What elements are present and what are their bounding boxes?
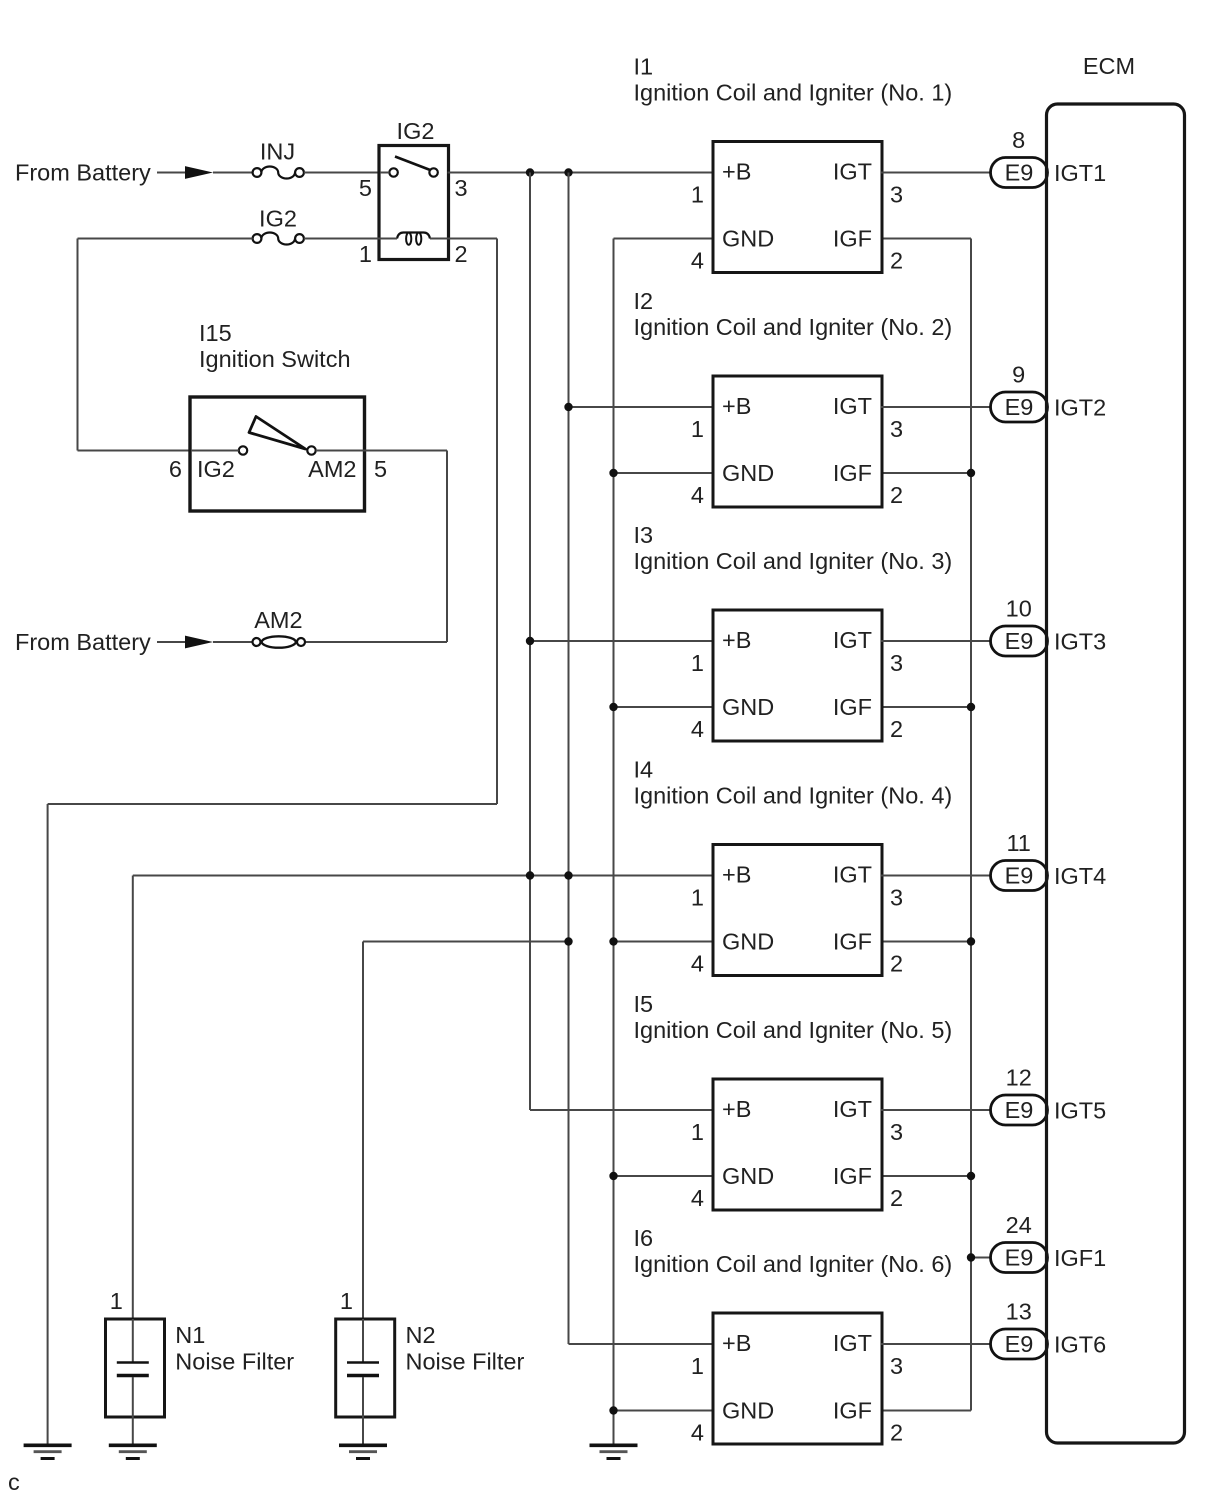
svg-text:Ignition Coil and Igniter (No.: Ignition Coil and Igniter (No. 4) <box>634 783 953 809</box>
junction IGF rail at I2 <box>967 469 975 477</box>
wire relay pin 3 to igniter I1 +B <box>448 172 715 174</box>
svg-text:IGT3: IGT3 <box>1054 629 1106 655</box>
svg-text:1: 1 <box>691 1119 704 1145</box>
junction IGF rail at IGF1 <box>967 1253 975 1261</box>
svg-text:IGT2: IGT2 <box>1054 395 1106 421</box>
svg-text:5: 5 <box>359 175 372 201</box>
svg-text:IGT: IGT <box>833 393 872 419</box>
connector E9 pin 24 oval <box>991 1243 1048 1273</box>
svg-text:3: 3 <box>890 1353 903 1379</box>
wire noise filter N2 to power rail B <box>363 941 569 943</box>
junction rail B at I2 +B <box>564 403 572 411</box>
svg-text:E9: E9 <box>1005 1331 1034 1357</box>
svg-text:2: 2 <box>890 248 903 274</box>
svg-text:1: 1 <box>691 1353 704 1379</box>
svg-text:13: 13 <box>1006 1299 1032 1325</box>
wire power rail B <box>568 173 570 1345</box>
svg-text:IGF: IGF <box>833 1398 872 1424</box>
wire power rail A <box>529 173 531 1111</box>
ground noise filter N1 <box>109 1445 157 1458</box>
arrow battery feed 1 <box>185 166 213 179</box>
wire relay pin 2 to ground <box>448 238 498 240</box>
svg-text:Ignition Coil and Igniter (No.: Ignition Coil and Igniter (No. 6) <box>634 1251 953 1277</box>
svg-text:INJ: INJ <box>260 139 295 165</box>
svg-text:6: 6 <box>169 456 182 482</box>
svg-text:GND: GND <box>722 929 774 955</box>
svg-text:I2: I2 <box>634 288 654 314</box>
svg-text:IG2: IG2 <box>259 206 297 232</box>
igniter I2 box U2 <box>713 376 882 507</box>
noise filter N2 capacitor <box>347 1319 379 1417</box>
fusible link AM2 <box>253 636 306 647</box>
svg-text:IGT: IGT <box>833 862 872 888</box>
svg-text:12: 12 <box>1006 1065 1032 1091</box>
svg-text:1: 1 <box>691 650 704 676</box>
wire ground rail to igniter I6 GND <box>614 1410 715 1412</box>
svg-text:IGT4: IGT4 <box>1054 863 1106 889</box>
wire igniter I6 IGF to rail <box>881 1410 971 1412</box>
wire noise filter N2 to ground <box>362 1417 364 1445</box>
junction ground rail at I3 GND <box>609 703 617 711</box>
wire igniter I6 IGT to ECM <box>881 1343 993 1345</box>
svg-text:9: 9 <box>1012 362 1025 388</box>
connector E9 pin 11 oval <box>991 861 1048 891</box>
connector E9 pin 13 oval <box>991 1329 1048 1359</box>
svg-text:IGT: IGT <box>833 627 872 653</box>
wire igniter I2 IGT to ECM <box>881 406 993 408</box>
wire rail B to igniter I6 +B <box>569 1343 715 1345</box>
wire relay internal coil leads <box>380 238 397 240</box>
svg-text:Noise Filter: Noise Filter <box>406 1349 525 1375</box>
svg-text:IGT5: IGT5 <box>1054 1098 1106 1124</box>
svg-text:From Battery: From Battery <box>15 160 151 186</box>
svg-text:IG2: IG2 <box>397 118 435 144</box>
svg-text:N2: N2 <box>406 1322 436 1348</box>
ground main rail <box>590 1445 638 1458</box>
junction power rail A top <box>526 168 534 176</box>
switch I15 lever <box>239 417 316 455</box>
wire igniter I1 IGF to rail <box>881 238 971 240</box>
relay IG2 box <box>379 146 449 260</box>
svg-text:GND: GND <box>722 1398 774 1424</box>
wire IGF rail <box>970 239 972 1411</box>
svg-text:IGT: IGT <box>833 159 872 185</box>
wire battery to arrow <box>157 172 186 174</box>
svg-text:IGT: IGT <box>833 1096 872 1122</box>
fuse IG2 <box>253 233 304 245</box>
svg-text:4: 4 <box>691 951 704 977</box>
svg-text:+B: +B <box>722 627 751 653</box>
wire arrow to fuse AM2 <box>213 641 253 643</box>
svg-text:24: 24 <box>1006 1212 1032 1238</box>
junction ground rail at I5 GND <box>609 1172 617 1180</box>
svg-text:IGF: IGF <box>833 694 872 720</box>
svg-text:1: 1 <box>359 241 372 267</box>
svg-text:I3: I3 <box>634 522 654 548</box>
connector E9 pin 12 oval <box>991 1095 1048 1125</box>
svg-text:From Battery: From Battery <box>15 629 151 655</box>
svg-text:+B: +B <box>722 862 751 888</box>
svg-text:E9: E9 <box>1005 628 1034 654</box>
svg-text:Ignition Coil and Igniter (No.: Ignition Coil and Igniter (No. 3) <box>634 548 953 574</box>
svg-text:10: 10 <box>1006 596 1032 622</box>
wire switch internal AM2 side <box>316 450 363 452</box>
svg-text:+B: +B <box>722 393 751 419</box>
svg-text:5: 5 <box>374 456 387 482</box>
svg-text:IGT: IGT <box>833 1330 872 1356</box>
igniter I6 box U6 <box>713 1313 882 1444</box>
wire ground rail to igniter I2 GND <box>614 472 715 474</box>
junction IGF rail at I4 <box>967 937 975 945</box>
igniter I3 box U3 <box>713 610 882 741</box>
svg-text:IG2: IG2 <box>197 456 235 482</box>
svg-text:I1: I1 <box>634 54 654 80</box>
svg-text:2: 2 <box>890 1420 903 1446</box>
wire ground rail to igniter I3 GND <box>614 706 715 708</box>
wire igniter I4 IGT to ECM <box>881 875 993 877</box>
wire switch AM2 to fuse AM2 <box>363 450 447 452</box>
wire rail B to igniter I2 +B <box>569 406 715 408</box>
svg-text:Ignition Switch: Ignition Switch <box>199 346 351 372</box>
svg-text:GND: GND <box>722 694 774 720</box>
wire ground rail to igniter I5 GND <box>614 1175 715 1177</box>
junction rail B at I4 +B <box>564 871 572 879</box>
igniter I4 box U4 <box>713 845 882 976</box>
svg-text:I6: I6 <box>634 1225 654 1251</box>
wire switch internal IG2 side <box>191 450 239 452</box>
svg-text:2: 2 <box>455 241 468 267</box>
svg-text:I4: I4 <box>634 757 654 783</box>
svg-text:2: 2 <box>890 482 903 508</box>
noise filter N1 capacitor <box>117 1319 149 1417</box>
ground relay coil <box>24 1445 72 1458</box>
svg-text:3: 3 <box>890 650 903 676</box>
svg-text:AM2: AM2 <box>308 456 356 482</box>
svg-text:Ignition Coil and Igniter (No.: Ignition Coil and Igniter (No. 5) <box>634 1017 953 1043</box>
connector E9 pin 8 oval <box>991 158 1048 188</box>
wire igniter I5 IGF to rail <box>881 1175 971 1177</box>
junction rail B at N2 <box>564 937 572 945</box>
svg-text:Noise Filter: Noise Filter <box>175 1349 294 1375</box>
noise filter N2 box <box>336 1319 395 1417</box>
wire battery2 to arrow <box>157 641 186 643</box>
fuse INJ <box>253 167 304 179</box>
svg-text:8: 8 <box>1012 127 1025 153</box>
svg-text:I5: I5 <box>634 991 654 1017</box>
igniter I5 box U5 <box>713 1079 882 1210</box>
wire relay internal pin5 <box>380 172 389 174</box>
svg-text:4: 4 <box>691 482 704 508</box>
svg-text:ECM: ECM <box>1083 53 1135 79</box>
svg-text:E9: E9 <box>1005 1097 1034 1123</box>
wire igniter I2 IGF to rail <box>881 472 971 474</box>
svg-text:Ignition Coil and Igniter (No.: Ignition Coil and Igniter (No. 2) <box>634 314 953 340</box>
wire igniter I3 IGF to rail <box>881 706 971 708</box>
switch I15 box <box>190 397 365 511</box>
svg-text:E9: E9 <box>1005 863 1034 889</box>
svg-text:IGF: IGF <box>833 929 872 955</box>
connector E9 pin 9 oval <box>991 392 1048 422</box>
noise filter N1 box <box>106 1319 165 1417</box>
svg-text:IGF: IGF <box>833 1163 872 1189</box>
svg-text:3: 3 <box>890 885 903 911</box>
wire igniter I4 IGF to rail <box>881 941 971 943</box>
svg-text:IGF: IGF <box>833 226 872 252</box>
junction rail A at I3 +B <box>526 637 534 645</box>
junction ground rail at I4 GND <box>609 937 617 945</box>
svg-text:1: 1 <box>691 416 704 442</box>
svg-text:Ignition Coil and Igniter (No.: Ignition Coil and Igniter (No. 1) <box>634 80 953 106</box>
svg-text:IGF1: IGF1 <box>1054 1245 1106 1271</box>
svg-text:11: 11 <box>1006 830 1030 856</box>
wire arrow to fuse INJ <box>213 172 253 174</box>
svg-text:4: 4 <box>691 716 704 742</box>
svg-text:IGT6: IGT6 <box>1054 1332 1106 1358</box>
wire igniter I3 IGT to ECM <box>881 640 993 642</box>
wire fuse INJ to relay pin 5 <box>304 172 380 174</box>
svg-text:N1: N1 <box>175 1322 205 1348</box>
svg-text:E9: E9 <box>1005 1245 1034 1271</box>
arrow battery feed 2 <box>185 636 213 649</box>
svg-text:I15: I15 <box>199 320 232 346</box>
svg-text:3: 3 <box>890 1119 903 1145</box>
svg-text:4: 4 <box>691 248 704 274</box>
junction IGF rail at I3 <box>967 703 975 711</box>
wire ground rail <box>613 239 615 1446</box>
junction rail A at I4 +B <box>526 871 534 879</box>
wire fuse IG2 to ignition switch pin 6 <box>78 238 253 240</box>
wire rail A to igniter I3 +B <box>530 640 714 642</box>
connector E9 pin 10 oval <box>991 626 1048 656</box>
wire igniter I1 IGT to ECM <box>881 172 993 174</box>
svg-text:GND: GND <box>722 1163 774 1189</box>
ground noise filter N2 <box>339 1445 387 1458</box>
svg-text:3: 3 <box>890 416 903 442</box>
wire rail A to igniter I5 +B <box>530 1109 714 1111</box>
svg-text:2: 2 <box>890 716 903 742</box>
svg-text:E9: E9 <box>1005 160 1034 186</box>
svg-text:4: 4 <box>691 1420 704 1446</box>
svg-text:+B: +B <box>722 1096 751 1122</box>
svg-text:3: 3 <box>890 182 903 208</box>
junction ground rail at I6 GND <box>609 1406 617 1414</box>
svg-text:+B: +B <box>722 1330 751 1356</box>
junction power rail B top <box>564 168 572 176</box>
wire noise filter N1 to ground <box>132 1417 134 1445</box>
svg-text:AM2: AM2 <box>254 607 302 633</box>
wire ground rail to igniter I1 GND <box>614 238 715 240</box>
junction ground rail at I2 GND <box>609 469 617 477</box>
wire fuse IG2 to relay pin 1 <box>304 238 380 240</box>
wire noise filter N1 to igniter I4 +B <box>133 875 714 877</box>
svg-text:1: 1 <box>691 885 704 911</box>
wire IGF rail to connector E9-24 <box>971 1257 993 1259</box>
svg-text:E9: E9 <box>1005 394 1034 420</box>
svg-text:1: 1 <box>691 182 704 208</box>
svg-text:+B: +B <box>722 159 751 185</box>
svg-text:1: 1 <box>110 1288 123 1314</box>
relay IG2 switch contacts <box>389 157 437 177</box>
svg-text:GND: GND <box>722 460 774 486</box>
svg-text:2: 2 <box>890 951 903 977</box>
ECM box <box>1047 104 1185 1443</box>
junction IGF rail at I5 <box>967 1172 975 1180</box>
wire igniter I5 IGT to ECM <box>881 1109 993 1111</box>
igniter I1 box U1 <box>713 142 882 273</box>
relay IG2 coil <box>397 233 430 245</box>
svg-text:4: 4 <box>691 1185 704 1211</box>
wire ground rail to igniter I4 GND <box>614 941 715 943</box>
svg-text:IGF: IGF <box>833 460 872 486</box>
svg-text:2: 2 <box>890 1185 903 1211</box>
svg-text:IGT1: IGT1 <box>1054 160 1106 186</box>
svg-text:1: 1 <box>340 1288 353 1314</box>
svg-text:GND: GND <box>722 226 774 252</box>
svg-text:c: c <box>8 1469 20 1495</box>
svg-text:3: 3 <box>455 175 468 201</box>
